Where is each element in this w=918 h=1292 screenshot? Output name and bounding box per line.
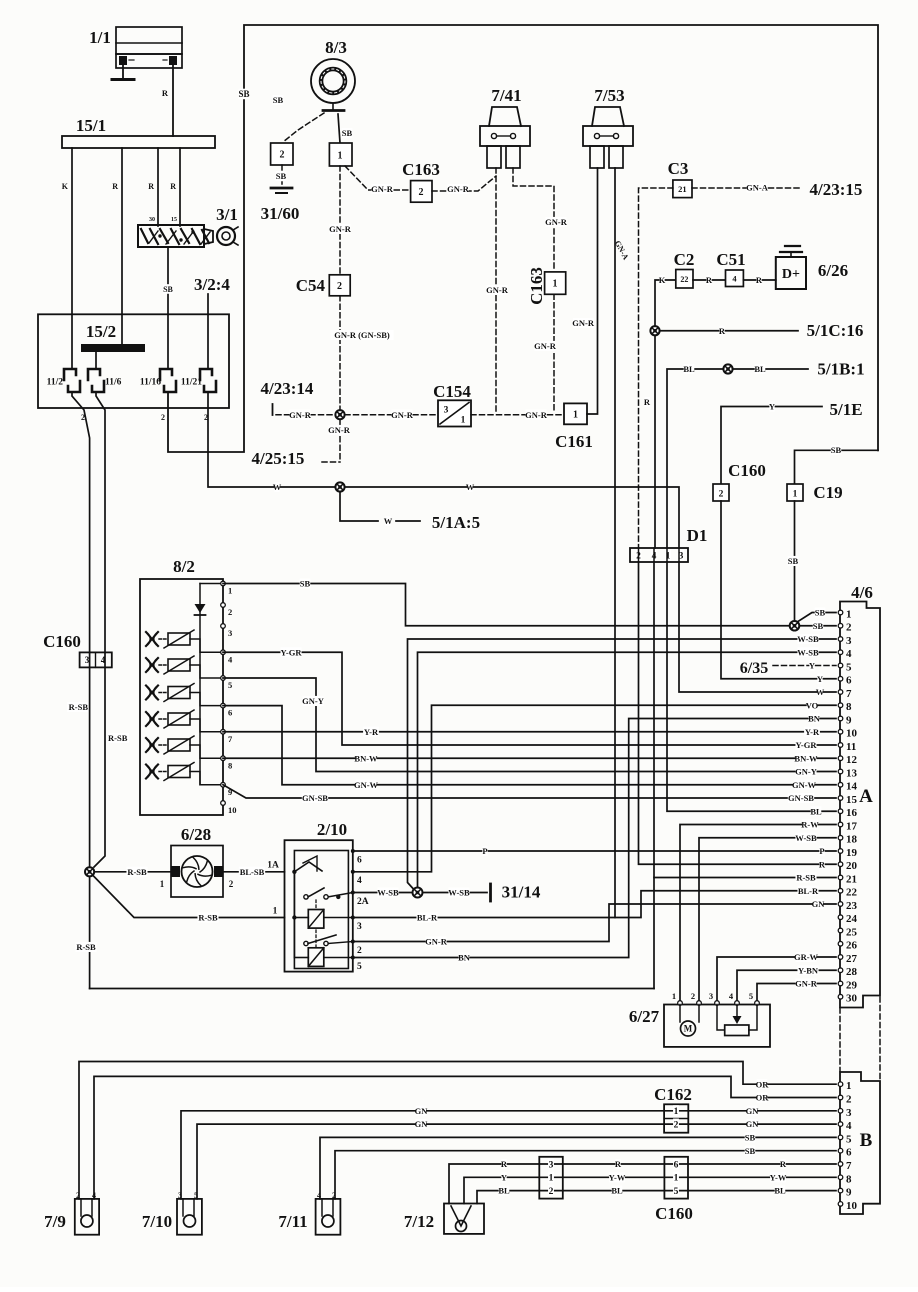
wire R C51 to alternator <box>743 279 775 281</box>
svg-text:2: 2 <box>228 607 232 617</box>
svg-text:8/3: 8/3 <box>325 38 347 57</box>
wire GN-R connector1 down to C54 (dashed) <box>339 166 341 275</box>
svg-text:23: 23 <box>846 900 858 912</box>
wire Y C160 down to pin6 <box>721 501 836 679</box>
wire GN-Y 8/2-5 to A13 <box>223 678 836 772</box>
wire battery negative to ground <box>122 65 124 78</box>
svg-text:W-SB: W-SB <box>448 888 470 898</box>
svg-text:2: 2 <box>337 281 342 292</box>
svg-text:3: 3 <box>846 1107 852 1119</box>
4/6 pin A7 <box>838 690 843 695</box>
svg-text:BL-R: BL-R <box>417 913 438 923</box>
wire R battery to 15/1 <box>172 65 174 136</box>
cigarette lighter 8/3 <box>311 59 355 103</box>
svg-text:GN-R: GN-R <box>486 285 509 295</box>
svg-text:20: 20 <box>846 860 858 872</box>
svg-text:1: 1 <box>228 586 232 596</box>
wire SB 7/11 to B5 <box>320 1137 836 1199</box>
wire R to 5/1C:16 <box>660 330 798 332</box>
svg-text:GN-R (GN-SB): GN-R (GN-SB) <box>334 330 390 340</box>
4/6 pin A2 <box>838 623 843 628</box>
wire R from 15/1 to fuse bar <box>121 148 123 345</box>
svg-text:10: 10 <box>228 805 237 815</box>
svg-text:5/1C:16: 5/1C:16 <box>807 321 864 340</box>
svg-text:13: 13 <box>846 767 858 779</box>
wire R from 15/1 to ignition b <box>179 148 181 226</box>
svg-text:6/35: 6/35 <box>740 660 768 677</box>
wire SB 7/11 to B6 <box>335 1151 836 1199</box>
fuse 11/21 <box>200 369 212 380</box>
svg-text:2: 2 <box>280 150 285 161</box>
wire R-SB riser to A21 <box>653 562 655 989</box>
wire K to C2 <box>655 280 676 331</box>
svg-text:24: 24 <box>846 913 858 925</box>
svg-text:C154: C154 <box>433 382 471 401</box>
6/27 pin 5 <box>755 1001 760 1006</box>
svg-text:BL: BL <box>754 364 766 374</box>
svg-text:6/26: 6/26 <box>818 261 848 280</box>
svg-text:7/11: 7/11 <box>278 1212 307 1231</box>
wire Y dashed 6/35 to A5 <box>773 665 836 667</box>
svg-text:SB: SB <box>831 445 842 455</box>
4/6 pin B4 <box>838 1122 843 1127</box>
wire R-SB C160 to junction <box>89 652 91 866</box>
svg-text:7/10: 7/10 <box>142 1212 172 1231</box>
svg-text:7: 7 <box>846 688 852 700</box>
svg-text:GN: GN <box>746 1119 760 1129</box>
4/6 pin B1 <box>838 1082 843 1087</box>
svg-text:W: W <box>466 482 475 492</box>
sensor 7/11 <box>316 1199 341 1235</box>
4/6 pin A21 <box>838 875 843 880</box>
connector C51 <box>726 270 744 287</box>
wire VO 2/10-4 to A8 <box>353 705 836 872</box>
svg-text:1: 1 <box>461 415 466 425</box>
svg-text:21: 21 <box>846 873 857 885</box>
svg-text:4/25:15: 4/25:15 <box>252 449 305 468</box>
svg-text:7/53: 7/53 <box>594 86 624 105</box>
svg-text:1: 1 <box>793 489 798 499</box>
4/6 pin A10 <box>838 729 843 734</box>
svg-text:4: 4 <box>846 648 852 660</box>
svg-text:19: 19 <box>846 847 858 859</box>
svg-text:2: 2 <box>719 489 724 499</box>
svg-text:27: 27 <box>846 953 858 965</box>
connector C160 pin2 <box>713 484 729 501</box>
motor M in 6/27 <box>679 1005 681 1023</box>
battery 1/1 <box>116 27 182 54</box>
svg-text:1: 1 <box>674 1107 679 1117</box>
svg-text:7/12: 7/12 <box>404 1212 434 1231</box>
svg-text:GN-R: GN-R <box>795 979 818 989</box>
svg-text:5/1B:1: 5/1B:1 <box>817 360 864 379</box>
svg-text:21: 21 <box>678 184 687 194</box>
wire R-SB long to pin21 riser <box>90 988 654 990</box>
svg-text:8: 8 <box>846 1173 852 1185</box>
svg-text:W-SB: W-SB <box>797 634 819 644</box>
4/6 pin B10 <box>838 1202 843 1207</box>
svg-text:SB: SB <box>273 95 284 105</box>
junction BL <box>723 364 732 373</box>
svg-text:6: 6 <box>228 708 232 718</box>
svg-text:C160: C160 <box>43 632 81 651</box>
svg-text:SB: SB <box>813 621 824 631</box>
svg-text:OR: OR <box>756 1093 770 1103</box>
svg-text:BL-R: BL-R <box>798 886 819 896</box>
wire W D1-3 to A7 <box>679 562 836 692</box>
connector C163 pin 1 <box>545 272 566 294</box>
connector C2 <box>676 270 693 289</box>
connector box 1 (8/3) <box>329 143 352 166</box>
wire P 2/10-6 to A19 <box>353 850 836 852</box>
connector box 2 (8/3) <box>271 143 293 165</box>
wire BL 7/12 to B9 <box>477 1191 836 1204</box>
svg-text:6: 6 <box>357 855 362 865</box>
svg-text:1: 1 <box>674 1174 679 1184</box>
wire K from 15/1 <box>71 148 73 369</box>
connector C163 pin 2 <box>411 181 432 203</box>
connector C161 <box>564 403 587 424</box>
connector C162 <box>664 1104 688 1132</box>
ground (battery) <box>112 78 134 81</box>
4/6 pin A20 <box>838 862 843 867</box>
svg-text:W-SB: W-SB <box>795 833 817 843</box>
coil 1 <box>308 910 324 929</box>
alternator D+ 6/26 <box>776 257 806 289</box>
4/6 pin A26 <box>838 941 843 946</box>
svg-text:GN-W: GN-W <box>792 780 817 790</box>
svg-text:GN-R: GN-R <box>328 425 351 435</box>
wire R-SB fuse 11/6 down <box>96 392 105 652</box>
svg-text:GN: GN <box>415 1119 429 1129</box>
svg-text:SB: SB <box>238 89 249 99</box>
svg-text:2/10: 2/10 <box>317 820 347 839</box>
svg-text:11/16: 11/16 <box>140 377 161 387</box>
svg-text:R: R <box>170 182 176 191</box>
svg-text:W: W <box>816 687 825 697</box>
4/6 pin A8 <box>838 703 843 708</box>
wire W-SB 2/10 2A to junction <box>353 892 412 894</box>
wire R from 15/1 to ignition <box>157 148 159 226</box>
svg-text:BL: BL <box>810 806 822 816</box>
svg-text:R-W: R-W <box>801 820 819 830</box>
svg-text:GN-A: GN-A <box>746 183 769 193</box>
wire W-SB junction to ground 31/14 <box>423 892 487 894</box>
svg-text:12: 12 <box>846 754 858 766</box>
4/6 pin A5 <box>838 663 843 668</box>
ignition coil 7/41 <box>489 107 521 126</box>
svg-text:1: 1 <box>273 906 278 916</box>
svg-text:W: W <box>273 482 282 492</box>
svg-text:6/27: 6/27 <box>629 1007 660 1026</box>
svg-text:R-SB: R-SB <box>108 733 128 743</box>
svg-text:5: 5 <box>357 962 362 972</box>
wire W-SB A3 <box>408 639 837 889</box>
svg-text:BL-SB: BL-SB <box>240 867 265 877</box>
junction SB at A1/A2 <box>790 621 800 631</box>
svg-text:R: R <box>501 1159 508 1169</box>
4/6 pin A23 <box>838 902 843 907</box>
svg-text:BN: BN <box>458 953 471 963</box>
sensor 7/10 <box>177 1199 202 1235</box>
svg-text:GN-R: GN-R <box>534 341 557 351</box>
wire BL to 5/1B:1 <box>667 369 808 548</box>
svg-text:3: 3 <box>549 1160 554 1170</box>
connector C54 <box>329 275 350 296</box>
svg-text:8: 8 <box>228 760 232 770</box>
connector (3,1,2) near 7/12 <box>539 1157 563 1199</box>
svg-text:31/14: 31/14 <box>502 883 541 902</box>
ECU connector 4/6 outline A <box>840 602 880 1008</box>
8/2 pins 1-10 <box>221 581 226 586</box>
4/6 pin A12 <box>838 756 843 761</box>
svg-text:9: 9 <box>846 714 852 726</box>
svg-text:22: 22 <box>846 887 858 899</box>
svg-text:7: 7 <box>846 1160 852 1172</box>
svg-text:GN: GN <box>746 1106 760 1116</box>
svg-text:GN-R: GN-R <box>447 184 470 194</box>
svg-text:1: 1 <box>338 151 343 162</box>
warning lamp 3 in 8/2 <box>146 686 158 700</box>
4/6 pin A9 <box>838 716 843 721</box>
svg-text:C162: C162 <box>654 1085 692 1104</box>
svg-text:R: R <box>819 859 826 869</box>
connector A-B dashed continuation <box>839 1008 841 1071</box>
4/6 pin A6 <box>838 676 843 681</box>
warning lamp 4 in 8/2 <box>146 712 158 726</box>
svg-text:SB: SB <box>745 1132 756 1142</box>
wire R-SB C160-4 to junction <box>94 652 105 867</box>
wire GN-R connector1 to C163-2 (dashed) <box>345 166 409 190</box>
svg-text:14: 14 <box>846 781 858 793</box>
svg-text:Y: Y <box>817 674 823 684</box>
svg-text:R: R <box>148 182 154 191</box>
svg-text:18: 18 <box>846 834 858 846</box>
svg-text:SB: SB <box>342 128 353 138</box>
relay 2/10 <box>285 840 353 971</box>
4/6 pin A13 <box>838 769 843 774</box>
warning lamp 2 in 8/2 <box>146 658 158 672</box>
ignition coil 7/53 <box>592 107 624 126</box>
svg-text:7/9: 7/9 <box>44 1212 66 1231</box>
svg-text:2: 2 <box>691 991 695 1001</box>
wire OR 7/9 to B2 <box>94 1076 836 1199</box>
svg-text:5: 5 <box>674 1187 679 1197</box>
wire R D1-2 to A20 <box>639 562 837 864</box>
svg-text:25: 25 <box>846 926 858 938</box>
node 4/25:15 <box>339 420 341 462</box>
instrument cluster 8/2 <box>140 579 223 815</box>
svg-text:3: 3 <box>357 922 362 932</box>
svg-text:3: 3 <box>444 405 449 415</box>
wire BL D1-1 to A16 <box>667 562 836 811</box>
4/6 pin A1 <box>838 610 843 615</box>
4/6 pin A15 <box>838 796 843 801</box>
wire SB border to C19 <box>795 450 879 484</box>
4/6 pin B6 <box>838 1148 843 1153</box>
svg-text:15: 15 <box>171 217 177 223</box>
svg-text:C51: C51 <box>716 250 745 269</box>
internal bus + diode <box>200 583 223 585</box>
4/6 pin A28 <box>838 968 843 973</box>
svg-text:1: 1 <box>846 1080 852 1092</box>
svg-text:2: 2 <box>549 1187 554 1197</box>
switch arm top <box>294 862 322 872</box>
6/27 pin 3 <box>715 1001 720 1006</box>
svg-text:4: 4 <box>846 1120 852 1132</box>
wire R-SB junction down <box>89 877 91 989</box>
svg-text:6: 6 <box>846 1147 852 1159</box>
svg-text:Y-GR: Y-GR <box>796 740 818 750</box>
svg-text:3: 3 <box>709 991 713 1001</box>
wire 7/53 right leg down to BL-R <box>614 168 616 918</box>
4/6 pin B8 <box>838 1175 843 1180</box>
svg-text:29: 29 <box>846 979 858 991</box>
svg-text:1A: 1A <box>267 860 279 870</box>
resistor in 6/27 <box>725 1025 749 1036</box>
4/6 pin A16 <box>838 809 843 814</box>
svg-text:SB: SB <box>815 608 826 618</box>
svg-text:Y-BN: Y-BN <box>798 965 819 975</box>
4/6 pin B2 <box>838 1095 843 1100</box>
wire SB ignition to fuse 11/16 <box>167 247 169 369</box>
svg-text:Y-GR: Y-GR <box>281 647 303 657</box>
svg-text:GN: GN <box>415 1106 429 1116</box>
svg-text:GN: GN <box>812 899 826 909</box>
svg-text:GN-SB: GN-SB <box>302 793 328 803</box>
junction R-SB <box>85 867 94 876</box>
wire GN 7/10 to B4 <box>197 1124 836 1199</box>
svg-text:3: 3 <box>846 635 852 647</box>
svg-text:4: 4 <box>357 876 362 886</box>
svg-text:6/28: 6/28 <box>181 825 211 844</box>
svg-text:R: R <box>706 275 713 285</box>
svg-text:Y-R: Y-R <box>805 727 820 737</box>
svg-text:Y: Y <box>809 661 815 671</box>
wire BL-R 2/10-3 to A22 <box>353 891 836 918</box>
wire GN-R C154 to C161 (dashed) <box>471 414 563 416</box>
wire SB C19 down to junction <box>794 501 796 621</box>
wire GN-R C163-2 to 7/41 (dashed) <box>432 176 496 191</box>
wire SB to ground 31/60 <box>281 165 283 184</box>
svg-text:5: 5 <box>749 991 753 1001</box>
svg-text:GN-R: GN-R <box>289 410 312 420</box>
svg-text:15/1: 15/1 <box>76 116 106 135</box>
wire GN-A C3 left dashed down to D1 <box>639 188 673 548</box>
svg-text:C161: C161 <box>555 432 593 451</box>
4/6 pin B7 <box>838 1162 843 1167</box>
wire W-SB A4 <box>418 652 837 887</box>
svg-text:GR-W: GR-W <box>794 952 819 962</box>
wire GN-A C3 to 4/23:15 <box>692 187 802 189</box>
bus bar 15/1 <box>62 136 215 148</box>
svg-text:GN-R: GN-R <box>572 318 595 328</box>
svg-text:9: 9 <box>846 1187 852 1199</box>
svg-text:K: K <box>62 182 69 191</box>
wire R C2 to C51 <box>693 279 726 281</box>
svg-text:31/60: 31/60 <box>261 204 300 223</box>
wire Y-BN 6/27-4 to A28 <box>737 970 836 1003</box>
svg-text:5: 5 <box>846 1133 852 1145</box>
svg-text:5: 5 <box>846 661 852 673</box>
svg-text:VO: VO <box>806 700 819 710</box>
wire bar to fuse 11/6 <box>95 352 97 369</box>
wire Y to 5/1E <box>721 407 822 485</box>
svg-text:BN-W: BN-W <box>794 753 818 763</box>
6/27 pin 4 <box>735 1001 740 1006</box>
svg-text:5/1A:5: 5/1A:5 <box>432 513 480 532</box>
svg-text:1: 1 <box>553 279 558 290</box>
svg-text:2: 2 <box>357 946 362 956</box>
4/6 pin A14 <box>838 782 843 787</box>
svg-text:Y: Y <box>501 1172 507 1182</box>
wire R-SB junction to 6/28 <box>95 871 171 873</box>
fuse box 15/2 <box>38 314 229 408</box>
svg-text:R: R <box>615 1159 622 1169</box>
svg-text:GN-R: GN-R <box>329 224 352 234</box>
svg-text:1: 1 <box>160 879 165 889</box>
svg-text:OR: OR <box>756 1079 770 1089</box>
wire GR-W 6/27-3 to A27 <box>717 957 836 1003</box>
svg-text:2: 2 <box>674 1121 679 1131</box>
svg-text:BL: BL <box>498 1186 510 1196</box>
svg-text:C3: C3 <box>668 159 689 178</box>
wire GN-R junction to C154 (dashed) <box>345 414 437 416</box>
wire GN-R 6/27-5 to A29 <box>757 984 836 1004</box>
wire GN 7/10 to B3 <box>181 1111 836 1199</box>
svg-text:W-SB: W-SB <box>797 647 819 657</box>
svg-text:8: 8 <box>846 701 852 713</box>
svg-text:C163: C163 <box>527 267 546 305</box>
4/6 pin A17 <box>838 822 843 827</box>
svg-text:30: 30 <box>846 993 858 1005</box>
svg-text:C160: C160 <box>655 1204 693 1223</box>
svg-text:26: 26 <box>846 940 858 952</box>
fuel sender 7/9 <box>75 1199 99 1235</box>
svg-text:1: 1 <box>549 1174 554 1184</box>
svg-text:R-SB: R-SB <box>127 867 147 877</box>
wire Y label A6 <box>817 674 822 684</box>
svg-text:15: 15 <box>846 794 858 806</box>
wire R-SB junction diag to 2/10 pin1 <box>93 876 285 918</box>
warning lamp 1 in 8/2 <box>146 632 158 646</box>
wire BN-W 8/2-8 to A12 <box>223 757 836 759</box>
connector D1 <box>630 548 688 562</box>
wire R/K down to D1 pin 4 <box>654 331 656 548</box>
wire Y-GR 8/2-4 to A11 <box>223 652 836 745</box>
svg-text:4/23:14: 4/23:14 <box>261 379 314 398</box>
fuse 11/6 <box>88 369 100 380</box>
svg-text:R-SB: R-SB <box>796 873 816 883</box>
6/27 pin 2 <box>697 1001 702 1006</box>
svg-text:11/21: 11/21 <box>181 377 202 387</box>
wire BN 2/10-5 to A9 <box>353 719 836 958</box>
connector C19 <box>787 484 803 501</box>
wire Y-W 7/12 to B8 <box>464 1177 836 1203</box>
svg-text:R: R <box>112 182 118 191</box>
ground 31/60 <box>271 187 292 190</box>
connector C160 (6,1,5) <box>664 1157 688 1199</box>
wire R-SB fuse 11/2 down <box>72 392 90 652</box>
svg-text:Y-W: Y-W <box>770 1172 787 1182</box>
svg-text:R: R <box>756 275 763 285</box>
wire GN 2/10-2 to A23 <box>353 904 836 942</box>
4/6 pin B9 <box>838 1188 843 1193</box>
wire GN-R C161 to 7/53 leg <box>587 168 598 414</box>
sensor 7/12 <box>444 1204 484 1234</box>
svg-text:GN-SB: GN-SB <box>788 793 814 803</box>
junction R <box>650 326 659 335</box>
